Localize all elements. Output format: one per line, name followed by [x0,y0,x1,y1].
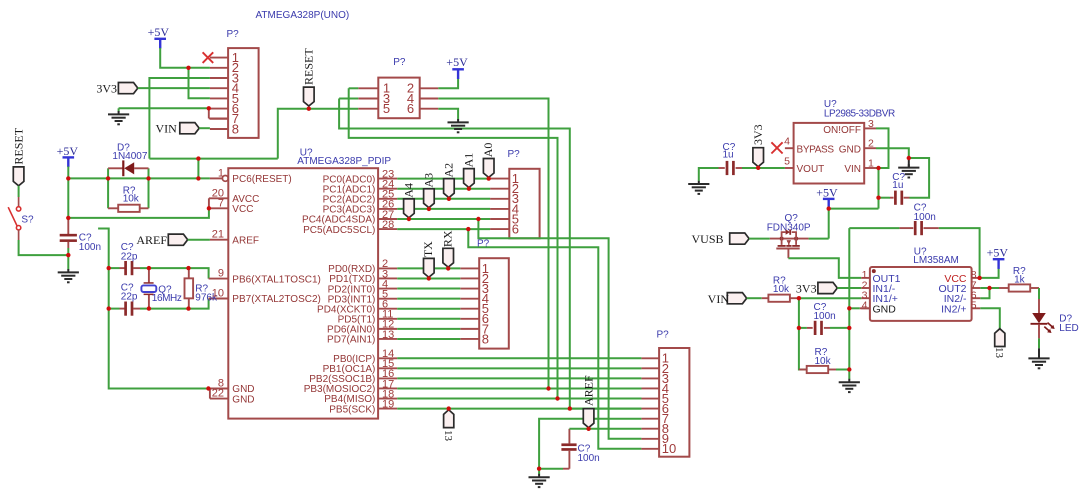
svg-text:10k: 10k [815,356,832,367]
svg-text:4: 4 [862,300,868,312]
svg-text:1: 1 [868,158,874,170]
svg-text:VIN: VIN [708,292,730,306]
svg-text:100n: 100n [914,212,936,223]
svg-text:AREF: AREF [232,235,259,246]
svg-text:VIN: VIN [844,164,861,175]
svg-text:VCC: VCC [232,204,253,215]
svg-text:1u: 1u [892,180,903,191]
svg-text:PB7(XTAL2TOSC2): PB7(XTAL2TOSC2) [232,294,321,305]
svg-text:BYPASS: BYPASS [797,144,835,155]
svg-text:5: 5 [784,155,790,167]
svg-text:GND: GND [839,144,861,155]
svg-text:P?: P? [477,239,490,250]
svg-text:3V3: 3V3 [796,282,817,296]
svg-text:22: 22 [212,388,224,400]
svg-text:10k: 10k [123,194,140,205]
svg-text:LM358AM: LM358AM [913,255,959,266]
svg-text:13: 13 [382,329,394,341]
svg-text:LP2985-33DBVR: LP2985-33DBVR [824,109,895,120]
svg-text:2: 2 [868,138,874,150]
svg-text:P?: P? [508,149,521,160]
svg-text:S?: S? [21,214,34,225]
svg-text:3V3: 3V3 [751,124,765,145]
svg-text:+5V: +5V [57,144,79,158]
svg-text:21: 21 [212,229,224,241]
svg-text:3V3: 3V3 [96,82,117,96]
svg-text:A2: A2 [441,163,455,178]
svg-text:RESET: RESET [11,127,25,164]
svg-text:VIN: VIN [155,122,177,136]
svg-text:100n: 100n [79,242,101,253]
svg-text:8: 8 [232,121,239,136]
svg-text:GND: GND [873,303,897,315]
svg-text:RX: RX [441,230,455,247]
svg-text:AREF: AREF [136,233,167,247]
svg-text:ATMEGA328P_PDIP: ATMEGA328P_PDIP [297,156,391,167]
svg-text:6: 6 [407,101,414,116]
svg-text:LED: LED [1059,323,1078,334]
svg-text:PB5(SCK): PB5(SCK) [329,404,375,415]
svg-text:100n: 100n [814,311,836,322]
svg-text:PD7(AIN1): PD7(AIN1) [327,335,375,346]
svg-text:P?: P? [227,29,240,40]
svg-text:22p: 22p [121,251,138,262]
svg-text:+5V: +5V [148,25,170,39]
svg-text:13: 13 [993,347,1005,359]
svg-text:22p: 22p [121,292,138,303]
svg-text:100n: 100n [578,453,600,464]
svg-text:13: 13 [442,430,454,442]
svg-text:10: 10 [662,441,676,456]
svg-text:+5V: +5V [987,246,1009,260]
svg-text:PC5(ADC5SCL): PC5(ADC5SCL) [303,225,375,236]
svg-text:19: 19 [382,398,394,410]
svg-text:1N4007: 1N4007 [112,151,147,162]
svg-text:16MHz: 16MHz [152,293,182,304]
svg-text:10: 10 [212,288,224,300]
svg-text:P?: P? [657,329,670,340]
svg-text:A0: A0 [481,143,495,158]
svg-text:A4: A4 [401,183,415,198]
svg-text:9: 9 [218,268,224,280]
svg-text:VOUT: VOUT [797,164,825,175]
svg-text:A1: A1 [461,153,475,168]
svg-text:28: 28 [382,219,394,231]
svg-text:P?: P? [393,57,406,68]
svg-text:1: 1 [218,167,224,179]
svg-text:8: 8 [482,331,489,346]
svg-text:+5V: +5V [446,55,468,69]
svg-text:10k: 10k [773,284,790,295]
svg-text:1k: 1k [1014,275,1026,286]
svg-text:RESET: RESET [302,48,316,85]
svg-text:VUSB: VUSB [691,232,723,246]
svg-text:1u: 1u [723,150,734,161]
svg-text:A3: A3 [421,173,435,188]
svg-text:5: 5 [971,300,977,312]
svg-text:AREF: AREF [582,375,596,406]
svg-text:TX: TX [421,241,435,257]
svg-text:7: 7 [218,197,224,209]
svg-text:IN2/+: IN2/+ [941,303,966,315]
svg-text:GND: GND [232,394,254,405]
svg-text:3: 3 [868,118,874,130]
svg-text:6: 6 [512,222,519,237]
svg-text:ATMEGA328P(UNO): ATMEGA328P(UNO) [256,10,350,21]
svg-text:ON!OFF: ON!OFF [823,125,861,136]
svg-text:+5V: +5V [816,185,838,199]
svg-text:5: 5 [383,101,390,116]
svg-text:PC6(RESET): PC6(RESET) [232,174,291,185]
svg-text:4: 4 [784,136,790,148]
svg-text:PB6(XTAL1TOSC1): PB6(XTAL1TOSC1) [232,274,321,285]
